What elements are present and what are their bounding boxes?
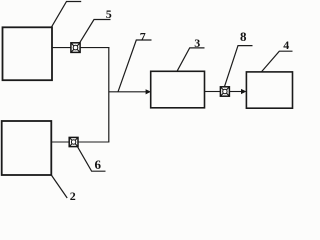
box 1 (top-left block) <box>3 27 53 80</box>
arrow wire valve V8 into box 4 <box>229 91 242 93</box>
arrowhead at box 3 <box>146 89 151 94</box>
valve V8 <box>220 87 229 96</box>
svg-text:6: 6 <box>94 157 101 172</box>
svg-text:7: 7 <box>140 30 146 44</box>
leader line for label 4 <box>261 51 292 72</box>
wire valve V5 to junction corner <box>80 47 109 49</box>
valve V6 <box>69 137 78 146</box>
box 2 (bottom-left block) <box>2 121 52 175</box>
box 3 <box>151 71 205 108</box>
vertical bus wire <box>108 47 110 142</box>
wire box3 to valve V8 <box>205 91 221 93</box>
leader line for label 3 <box>177 48 205 71</box>
svg-text:8: 8 <box>240 29 247 44</box>
svg-text:4: 4 <box>283 38 289 52</box>
wire box1 to valve V5 <box>52 47 71 49</box>
leader line for label 6 <box>77 147 105 172</box>
svg-text:2: 2 <box>70 189 76 200</box>
arrow wire 7 into box 3 <box>109 91 147 93</box>
leader line for label 5 <box>80 20 111 43</box>
leader line for label 2 <box>51 175 67 198</box>
box 4 <box>246 72 292 108</box>
svg-text:5: 5 <box>106 7 112 21</box>
wire box2 to valve V6 <box>51 141 69 143</box>
wire valve V6 to bus <box>78 141 109 143</box>
leader line for label 8 <box>225 46 253 87</box>
arrowhead at box 4 <box>241 89 246 94</box>
leader line to label 1 (label cropped at top edge) <box>51 2 81 28</box>
valve V5 <box>71 43 80 53</box>
svg-text:3: 3 <box>194 36 200 50</box>
leader line for label 7 <box>118 40 152 92</box>
